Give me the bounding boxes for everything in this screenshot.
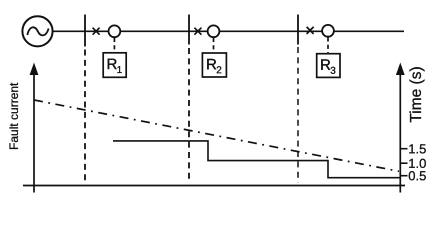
tick 0.5 [400,175,407,177]
zone boundary dashed line 3 [297,47,299,183]
svg-text:2: 2 [216,65,222,76]
busbar tick 1 [84,15,86,47]
svg-text:Fault current: Fault current [7,82,21,150]
CT cross X1 [93,28,100,35]
breaker B2 [208,25,220,37]
fault current curve [34,100,399,171]
time axis [396,63,405,193]
source G1 [22,16,52,46]
time grading steps [113,141,400,178]
svg-text:3: 3 [330,66,336,77]
bus wire [52,30,404,32]
CT cross X2 [194,28,201,35]
tick 1.5 [400,148,407,150]
CT cross X3 [307,27,314,34]
tick 1.0 [400,162,407,164]
zone boundary dashed line 1 [84,50,86,183]
x axis [23,185,405,187]
relay link 2 [213,38,215,53]
fault current axis [30,63,39,193]
relay R1 [103,53,126,78]
relay link 1 [113,38,115,53]
zone boundary dashed line 2 [188,48,190,183]
svg-text:1.5: 1.5 [408,141,426,156]
breaker B3 [322,25,334,37]
busbar tick 3 [297,15,299,45]
relay link 3 [327,37,329,53]
svg-text:0.5: 0.5 [408,168,426,183]
svg-text:Time (s): Time (s) [408,66,425,122]
relay R3 [317,54,340,78]
relay R2 [202,53,226,77]
svg-text:1: 1 [117,65,123,76]
breaker B1 [109,25,121,37]
busbar tick 2 [188,15,190,45]
